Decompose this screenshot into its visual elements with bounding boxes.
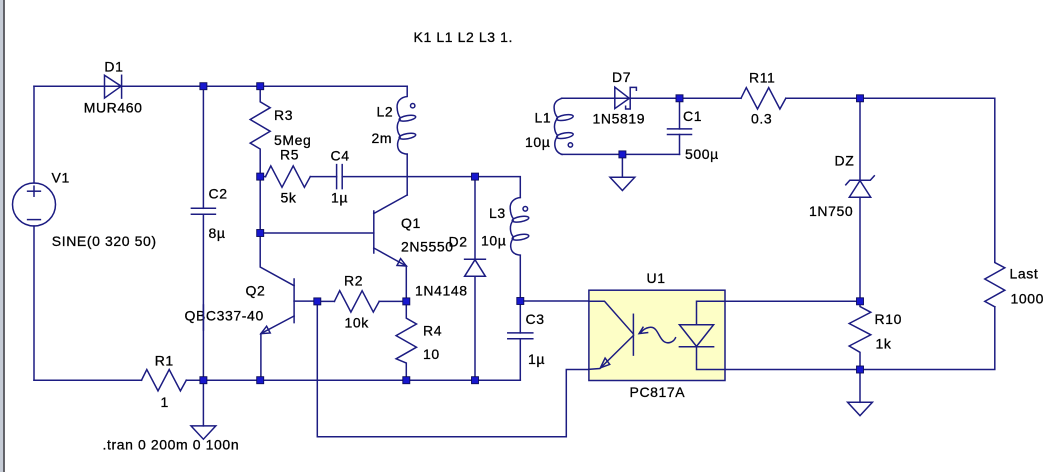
svg-text:1N750: 1N750 [809,203,853,219]
svg-text:5k: 5k [281,190,297,206]
svg-text:.tran 0 200m 0 100n: .tran 0 200m 0 100n [103,437,240,453]
junction Q1 emitter node [403,298,410,305]
junction R3-R5 [257,173,264,180]
svg-text:C3: C3 [526,311,545,327]
wire R11 to DZ node to Last [786,98,995,262]
capacitor C4 [337,165,343,189]
wire bottom-left rail [34,379,142,381]
svg-text:D2: D2 [449,233,468,249]
phototransistor bar [632,314,634,355]
svg-text:R4: R4 [423,323,442,339]
junction Q2 base node [314,298,321,305]
wire V1 top lead [33,86,35,183]
wire opto pin3 to R10 bottom node [725,369,860,371]
schottky diode D7 [615,87,637,109]
wire Last bottom [860,307,995,370]
junction D7-C1-R11 node [676,95,683,102]
svg-text:R2: R2 [344,273,363,289]
junction L1-C1 ground node [619,151,626,158]
wire mid rail R5-C4-D2 [260,176,265,178]
wire top-left rail [34,85,407,87]
resistor R1 [142,370,187,391]
junction D2 top [472,173,479,180]
wire V1 bottom lead [33,226,35,380]
capacitor C3 [508,333,533,339]
ground at C2 node [191,380,216,439]
resistor R2 [334,291,379,312]
capacitor C1 [668,129,692,135]
svg-text:V1: V1 [52,170,70,186]
junction R3 top [257,83,264,90]
inductor L2 [397,86,416,154]
wire L2 vertical to Q1 collector [406,154,408,195]
transistor Q1 [374,195,407,266]
svg-text:R5: R5 [280,147,299,163]
svg-text:D1: D1 [104,59,123,75]
resistor R11 [741,88,786,109]
svg-text:U1: U1 [647,270,666,286]
svg-text:1N4148: 1N4148 [415,282,468,298]
svg-text:DZ: DZ [835,153,855,169]
wire C3 bottom [519,339,521,380]
svg-text:R11: R11 [749,70,775,86]
svg-text:1k: 1k [876,336,892,352]
junction ground rail at Q2 [257,377,264,384]
svg-text:1000: 1000 [1011,291,1045,307]
svg-text:L1: L1 [535,109,552,125]
wire bottom feedback loop [317,301,589,436]
ground at R10 node [848,370,873,416]
junction C3-L3-opto node [517,298,524,305]
light arrow squiggle [641,327,676,342]
svg-text:Q1: Q1 [401,215,421,231]
wire right top rail L1 to D7 to C1 to R11 [562,97,742,99]
svg-text:MUR460: MUR460 [84,100,143,116]
svg-text:1N5819: 1N5819 [593,111,646,127]
junction ground rail at D2 [472,377,479,384]
wire DZ bottom lead [859,197,861,301]
svg-text:Last: Last [1010,266,1039,282]
capacitor C2 [191,86,215,380]
svg-text:C2: C2 [209,186,228,202]
svg-text:SINE(0 320 50): SINE(0 320 50) [52,233,157,249]
wire R1 right to rail [186,379,520,381]
svg-text:10: 10 [423,346,440,362]
svg-text:C4: C4 [331,148,350,164]
inductor L3 [510,198,529,256]
phototransistor emitter [589,336,634,370]
svg-text:L3: L3 [489,205,506,221]
svg-text:1µ: 1µ [528,351,545,367]
svg-text:R10: R10 [875,311,902,327]
svg-text:10µ: 10µ [481,233,506,249]
svg-text:500µ: 500µ [685,146,719,162]
svg-text:2N5550: 2N5550 [401,238,454,254]
svg-text:R1: R1 [155,353,174,369]
inductor L1 [554,98,574,154]
junction R10-ground-Last node [857,366,864,373]
window left border [0,0,5,472]
diode D1 [105,75,122,98]
svg-text:Q2: Q2 [246,283,266,299]
svg-text:10µ: 10µ [525,134,550,150]
wire R3 to Q2 collector node [259,177,261,233]
wire Q1 emitter down [405,266,407,301]
wire R2 right lead [379,300,406,302]
wire Q1 base [260,232,374,234]
wire L3 top [475,177,520,198]
svg-text:8µ: 8µ [209,225,226,241]
svg-text:0.3: 0.3 [751,111,772,127]
resistor R5 [266,166,311,187]
junction C2 top [200,83,207,90]
wire R2 left lead [317,300,334,302]
wire DZ top lead [859,98,861,180]
phototransistor collector [589,301,634,334]
svg-text:2m: 2m [372,130,393,146]
wire C1 leads [679,98,681,129]
svg-text:PC817A: PC817A [630,384,686,400]
junction ground rail at C2 [200,377,207,384]
wire R5 to C4 [310,176,336,178]
svg-text:K1 L1 L2 L3 1.: K1 L1 L2 L3 1. [414,29,513,45]
svg-text:1µ: 1µ [331,190,348,206]
resistor R3 [250,86,270,176]
junction R11-DZ-Last node [857,95,864,102]
resistor R10 [849,301,871,369]
wire L3 bottom to C3 node [519,255,521,333]
optocoupler U1 [589,290,725,380]
wire L1 bottom rail [562,153,680,155]
junction Q1 base node [257,230,264,237]
svg-text:R3: R3 [274,107,293,123]
wire C4 right to D2 top rail [342,176,475,178]
svg-text:D7: D7 [612,69,631,85]
LED triangle [679,325,713,347]
ground at C1 node [610,154,635,190]
LED anode lead [697,301,726,324]
resistor Last (load) [985,262,1005,307]
svg-text:1: 1 [161,394,169,410]
diode D2 [465,177,486,381]
transistor Q2 [260,233,317,380]
resistor R4 [396,301,416,380]
voltage source V1 [13,183,56,226]
svg-text:QBC337-40: QBC337-40 [185,308,264,324]
svg-text:C1: C1 [683,108,702,124]
wire opto pin4 to DZ/R10 node [725,300,860,302]
junction DZ-R10-opto node [857,298,864,305]
wire C2 lead over label [202,305,204,330]
zener diode DZ [846,176,875,197]
LED cathode lead [697,347,726,370]
junction ground rail at R4 [403,377,410,384]
wire C3 node to opto pin1 [520,300,589,302]
svg-text:L2: L2 [377,104,394,120]
LED cathode bar [679,346,713,348]
svg-text:10k: 10k [345,315,370,331]
